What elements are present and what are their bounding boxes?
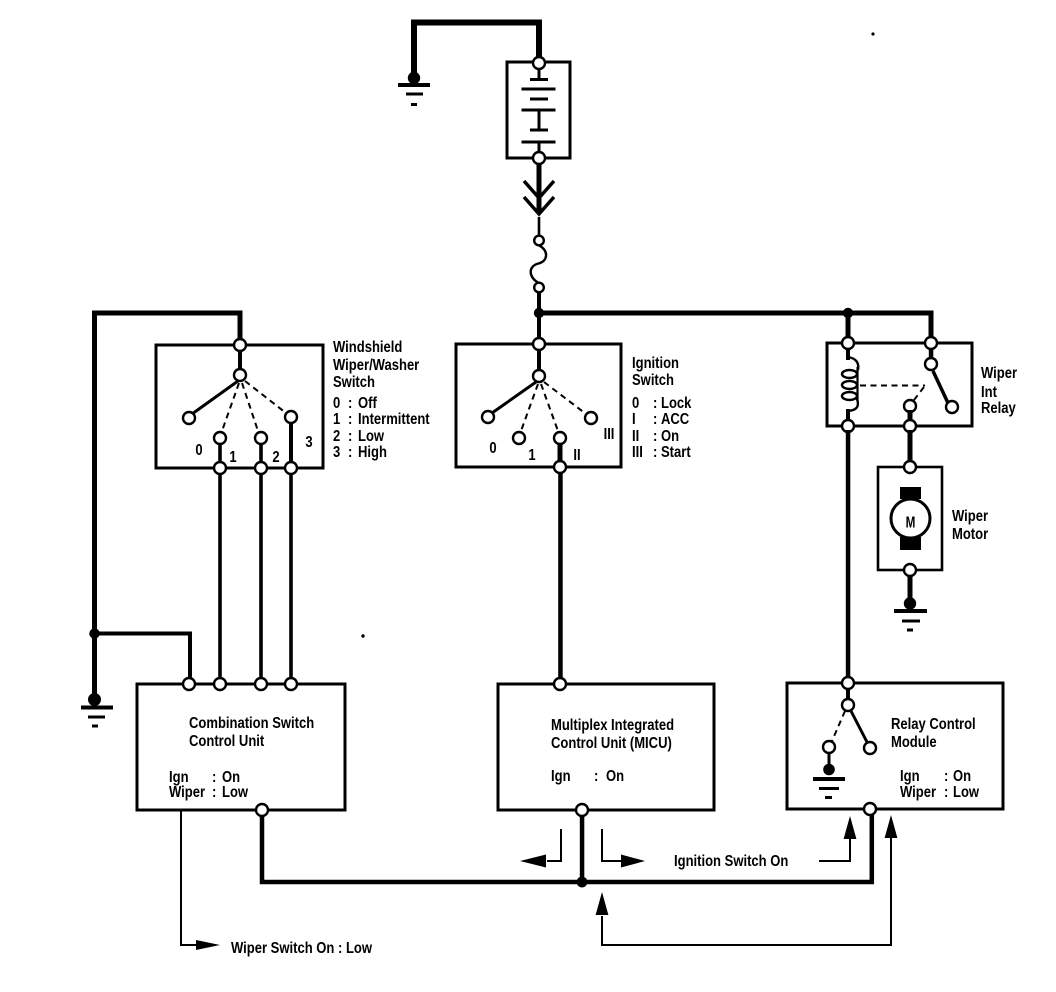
svg-text:0: 0 <box>632 395 639 413</box>
module switch stem <box>846 688 850 700</box>
svg-text:Switch: Switch <box>333 374 375 392</box>
motor body circle <box>891 499 930 538</box>
wiper int relay caption <box>981 365 1017 418</box>
bottom bus wire <box>262 814 872 882</box>
svg-text:Int: Int <box>981 384 997 402</box>
arrow out right (ignition switch on) <box>602 829 645 868</box>
svg-text:1: 1 <box>333 411 340 429</box>
ignition bottom pin <box>554 461 566 473</box>
svg-text::: : <box>653 395 657 413</box>
wiper switch dashed to 3 <box>245 381 286 413</box>
svg-text:III: III <box>632 444 643 462</box>
svg-text:0: 0 <box>333 395 340 413</box>
wire power bus to wiper switch (left loop) <box>95 313 241 634</box>
wire MICU to bottom bus <box>580 816 585 880</box>
wiper switch blade to 0 <box>192 381 238 414</box>
svg-text::: : <box>944 768 948 786</box>
wire contact 1 to pin <box>218 440 222 464</box>
svg-text:III: III <box>604 426 615 444</box>
svg-text:Ign: Ign <box>551 768 571 786</box>
svg-text:0: 0 <box>195 442 202 460</box>
svg-text:On: On <box>953 768 971 786</box>
svg-text:Start: Start <box>661 444 691 462</box>
svg-text:Wiper: Wiper <box>169 784 205 802</box>
wire relay contact to pin <box>908 410 913 426</box>
ignition contact 1 <box>513 432 525 444</box>
svg-text:0: 0 <box>489 440 496 458</box>
ground G3 bottom-left <box>81 693 113 728</box>
svg-text:II: II <box>573 447 580 465</box>
svg-text:3: 3 <box>333 444 340 462</box>
svg-text::: : <box>944 784 948 802</box>
ignition switch dashed to III <box>544 382 586 414</box>
ignition switch blade to 0 <box>492 382 536 413</box>
ground G4 inside module <box>813 764 845 799</box>
svg-text:Low: Low <box>358 428 385 446</box>
svg-text:Relay Control: Relay Control <box>891 716 976 734</box>
wire battery to connector <box>537 164 542 214</box>
svg-text:Multiplex Integrated: Multiplex Integrated <box>551 717 674 735</box>
wiper motor caption <box>952 508 988 544</box>
battery bottom terminal pin <box>533 152 545 164</box>
wire relay to wiper motor <box>908 430 913 469</box>
module switch blade <box>851 711 868 744</box>
combination switch control unit box <box>137 684 345 810</box>
MICU caption <box>551 717 674 786</box>
relay fixed contact hexagon <box>904 400 916 412</box>
battery cell plates <box>522 69 556 154</box>
svg-text:Control Unit: Control Unit <box>189 733 264 751</box>
svg-text:Ignition: Ignition <box>632 355 679 373</box>
svg-text:Wiper: Wiper <box>952 508 988 526</box>
ignition switch box <box>456 344 621 467</box>
motor bottom pin <box>904 564 916 576</box>
relay switch blade <box>933 371 948 403</box>
wiper switch dashed to 2 <box>242 383 258 431</box>
ignition switch pole stem <box>537 349 541 371</box>
svg-text::: : <box>348 395 352 413</box>
relay blade end circle <box>946 401 958 413</box>
wire pin2 to combination unit <box>259 470 263 684</box>
svg-text:Windshield: Windshield <box>333 339 402 357</box>
scan speck left middle <box>361 634 364 637</box>
svg-text:On: On <box>606 768 624 786</box>
module blade end circle <box>864 742 876 754</box>
wiper switch input pin <box>234 339 246 351</box>
combination unit pin C <box>255 678 267 690</box>
module ground contact circle <box>823 741 835 753</box>
relay coil right side wire <box>856 367 858 401</box>
wire junction to relay coil <box>846 313 851 343</box>
svg-text:Intermittent: Intermittent <box>358 411 430 429</box>
combination unit pin D <box>285 678 297 690</box>
svg-text:Ign: Ign <box>900 768 920 786</box>
svg-text:2: 2 <box>333 428 340 446</box>
node ground branch junction <box>89 628 99 638</box>
svg-text:Low: Low <box>953 784 980 802</box>
module dashed blade <box>832 711 845 741</box>
connector chevron 2 <box>524 197 554 214</box>
svg-text:Wiper Switch On : Low: Wiper Switch On : Low <box>231 940 373 958</box>
svg-text:II: II <box>632 428 639 446</box>
wiper switch contact 2 <box>255 432 267 444</box>
module contact ground stem <box>828 752 831 766</box>
node bottom bus junction <box>577 877 588 888</box>
svg-text::: : <box>653 428 657 446</box>
svg-text::: : <box>348 411 352 429</box>
battery top terminal pin <box>533 57 545 69</box>
wiper switch pole <box>234 369 246 381</box>
ignition input pin <box>533 338 545 350</box>
svg-text:ACC: ACC <box>661 411 690 429</box>
svg-text:2: 2 <box>272 449 279 467</box>
motor brush top <box>900 487 921 499</box>
svg-text:1: 1 <box>528 447 535 465</box>
svg-text:I: I <box>632 411 636 429</box>
svg-text:Switch: Switch <box>632 372 674 390</box>
svg-text:Wiper: Wiper <box>981 365 1017 383</box>
svg-text:Combination Switch: Combination Switch <box>189 715 314 733</box>
ignition pole <box>533 370 545 382</box>
arrow loop bus to module <box>596 815 898 945</box>
wire connector to fuse <box>538 217 541 236</box>
arrow into relay module (from bus) <box>819 816 856 861</box>
wiper switch bottom pin 2 <box>255 462 267 474</box>
svg-text::: : <box>653 444 657 462</box>
svg-text:Wiper/Washer: Wiper/Washer <box>333 357 420 375</box>
relay control module box <box>787 683 1003 809</box>
wiper switch contact 0 <box>183 412 195 424</box>
wire contact 2 to pin <box>259 440 263 464</box>
relay dashed actuation line <box>860 385 925 387</box>
wire ignition to MICU <box>558 470 563 684</box>
node main junction <box>534 308 544 318</box>
combination unit pin A <box>183 678 195 690</box>
wiper switch contact 3 <box>285 411 297 423</box>
wiper motor box <box>878 467 942 570</box>
wire pin1 to combination unit <box>218 470 222 684</box>
wire junction to ground <box>92 633 97 696</box>
battery box <box>507 62 570 158</box>
fuse element <box>531 245 546 283</box>
relay pin coil top <box>842 337 854 349</box>
svg-text::: : <box>348 428 352 446</box>
wire relay coil to relay control module <box>846 430 851 685</box>
relay coil stem top <box>846 348 850 360</box>
ignition switch dashed to II <box>541 384 558 431</box>
relay coil stem bottom <box>846 409 850 426</box>
svg-text:Control Unit (MICU): Control Unit (MICU) <box>551 735 672 753</box>
combination unit caption <box>169 715 314 802</box>
wiper int relay box <box>827 343 972 426</box>
wire fuse to main node <box>537 292 541 344</box>
svg-text:Module: Module <box>891 734 937 752</box>
fuse bottom circle <box>534 283 544 293</box>
svg-text::: : <box>348 444 352 462</box>
svg-text:Lock: Lock <box>661 395 692 413</box>
ground G2 wiper motor <box>894 597 927 631</box>
svg-text:Relay: Relay <box>981 400 1017 418</box>
module top pin <box>842 677 854 689</box>
svg-text:Motor: Motor <box>952 526 988 544</box>
wire contact II to pin <box>558 440 563 464</box>
relay switch pole stem <box>929 348 934 359</box>
fuse top circle <box>534 236 544 246</box>
wiper switch caption <box>333 339 430 462</box>
node relay branch junction <box>843 308 853 318</box>
svg-text:Wiper: Wiper <box>900 784 936 802</box>
svg-text:3: 3 <box>305 434 312 452</box>
svg-text:Low: Low <box>222 784 249 802</box>
wire contact 3 to pin <box>289 419 293 464</box>
wiper switch dashed to 1 <box>222 383 239 431</box>
svg-text:Ignition Switch On: Ignition Switch On <box>674 853 788 871</box>
module bottom pin <box>864 803 876 815</box>
scan speck top right <box>871 32 874 35</box>
motor brush bottom <box>900 537 921 550</box>
arrow out left (MICU output) <box>520 829 561 868</box>
wiper switch contact 1 <box>214 432 226 444</box>
svg-text:On: On <box>661 428 679 446</box>
svg-text::: : <box>594 768 598 786</box>
wiper switch bottom pin 3 <box>285 462 297 474</box>
windshield wiper/washer switch box <box>156 345 323 468</box>
module caption <box>891 716 980 802</box>
svg-text:1: 1 <box>229 449 236 467</box>
wire junction to combination unit <box>95 634 191 681</box>
svg-text:M: M <box>906 513 916 531</box>
combination unit bottom pin <box>256 804 268 816</box>
connector chevron 1 <box>524 181 554 198</box>
ignition contact III <box>585 412 597 424</box>
motor top pin <box>904 461 916 473</box>
ignition switch dashed to 1 <box>521 384 538 431</box>
wire pin3 to combination unit <box>289 470 293 684</box>
MICU top pin <box>554 678 566 690</box>
MICU bottom pin <box>576 804 588 816</box>
relay dashed link to contact <box>914 387 924 400</box>
relay coil <box>842 357 858 411</box>
relay pin coil bottom <box>842 420 854 432</box>
svg-text:Off: Off <box>358 395 377 413</box>
relay pin motor out <box>904 420 916 432</box>
module switch pole <box>842 699 854 711</box>
relay pin switch top <box>925 337 937 349</box>
wire battery positive to top-left ground <box>414 23 539 77</box>
relay switch pole <box>925 358 937 370</box>
ignition contact 0 <box>482 411 494 423</box>
main power bus wire to right <box>539 313 931 343</box>
combination unit pin B <box>214 678 226 690</box>
svg-text:High: High <box>358 444 387 462</box>
ignition switch caption <box>632 355 692 462</box>
wiper switch pole stem <box>238 350 242 371</box>
svg-text::: : <box>653 411 657 429</box>
svg-text::: : <box>212 784 216 802</box>
wire motor to ground <box>908 575 913 601</box>
wiper switch bottom pin 1 <box>214 462 226 474</box>
multiplex integrated control unit box <box>498 684 714 810</box>
arrow wiper switch output <box>181 810 220 950</box>
ground G1 top-left <box>398 72 430 106</box>
ignition contact II <box>554 432 566 444</box>
